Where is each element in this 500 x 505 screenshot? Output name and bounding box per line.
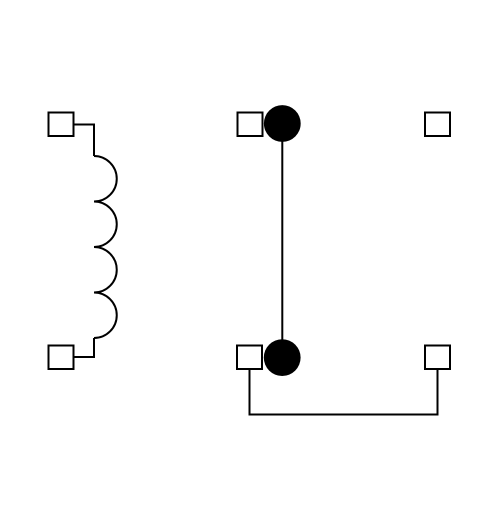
wire between contacts bbox=[281, 124, 283, 358]
terminal pin A1 (top-left square) bbox=[49, 113, 74, 137]
contact dot top (filled circle) bbox=[264, 105, 301, 142]
wire coil bottom to A2 bbox=[74, 338, 94, 357]
terminal pin 12 (bottom-middle square) bbox=[237, 346, 262, 370]
terminal pin 14 (bottom-right square) bbox=[425, 346, 450, 370]
wire pin 12 to pin 14 (bottom U link) bbox=[250, 369, 438, 415]
terminal pin 11 (top-middle square) bbox=[238, 113, 263, 137]
terminal pin 24 (top-right square, unconnected) bbox=[425, 113, 450, 137]
terminal pin A2 (bottom-left square) bbox=[49, 346, 74, 370]
wire A1 to coil top bbox=[74, 125, 94, 157]
contact dot bottom (filled circle) bbox=[264, 339, 301, 376]
coil L1 (relay coil, 4 arcs) bbox=[94, 156, 117, 338]
